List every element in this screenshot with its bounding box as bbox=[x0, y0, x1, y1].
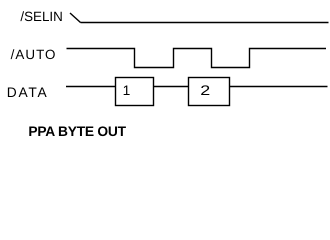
/AUTO waveform wire bbox=[67, 49, 327, 68]
svg-text:/SELIN: /SELIN bbox=[20, 9, 62, 24]
DATA wire middle segment bbox=[154, 86, 189, 88]
svg-text:2: 2 bbox=[200, 83, 210, 98]
DATA wire left segment bbox=[66, 86, 115, 88]
svg-text:/AUTO: /AUTO bbox=[11, 47, 57, 62]
data box 1 bbox=[116, 78, 154, 106]
DATA wire right segment bbox=[230, 86, 328, 88]
/SELIN waveform low wire bbox=[81, 22, 329, 24]
svg-text:DATA: DATA bbox=[7, 85, 49, 100]
svg-text:PPA BYTE OUT: PPA BYTE OUT bbox=[28, 124, 126, 139]
/SELIN waveform falling edge bbox=[70, 13, 81, 23]
svg-text:1: 1 bbox=[123, 83, 131, 98]
data box 2 bbox=[189, 78, 230, 106]
